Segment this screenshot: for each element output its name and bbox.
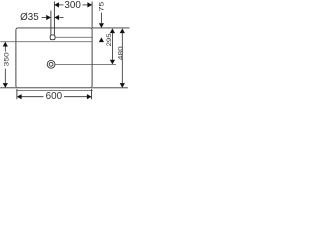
350 top arrow [3,42,8,47]
295 down arrow [110,60,115,65]
svg-text:Ø35: Ø35 [20,12,39,23]
svg-text:480: 480 [118,46,125,60]
dimension 75 right [100,13,102,24]
svg-text:295: 295 [106,33,113,46]
dimension 295 right [111,33,113,60]
front lip line [16,89,92,91]
600 right arrow [87,94,92,99]
O35 right-pointing arrow with tail [42,15,51,20]
bottom ext line right [92,87,128,89]
300 right arrow [87,2,92,7]
300 right ext line [91,2,93,28]
75 up arrow at hole center line [99,37,104,42]
dimension 350 left [4,46,6,83]
295 top arrow [110,28,115,33]
svg-text:600: 600 [46,91,63,102]
basin outer rect [16,28,92,88]
tap hole right tangent ext / 300 left ext [53,1,55,34]
bottom ext line left [0,87,16,89]
600 right ext line [91,89,93,100]
drain center ext line [55,63,116,65]
tap hole square [50,35,55,40]
deck line [0,41,92,43]
dimension 600 bottom [22,96,88,98]
svg-text:75: 75 [99,1,106,11]
tap hole left tangent ext [50,11,52,35]
75 down arrow [99,23,104,28]
600 left arrow [17,94,22,99]
svg-text:300: 300 [64,0,81,11]
O35 left-pointing arrow with tail [54,15,63,20]
600 left ext line [16,89,18,100]
svg-text:350: 350 [4,52,11,66]
300 left arrow [54,2,59,7]
rear edge ext line right [92,27,129,29]
drain inner circle [49,62,53,66]
dimension 480 right [121,33,123,83]
480 bottom arrow [120,83,125,88]
drain outer circle [47,60,55,68]
tap hole center ext line [55,36,92,38]
350 bottom arrow [3,83,8,88]
480 top arrow [120,28,125,33]
dimension 300 top [54,4,92,6]
